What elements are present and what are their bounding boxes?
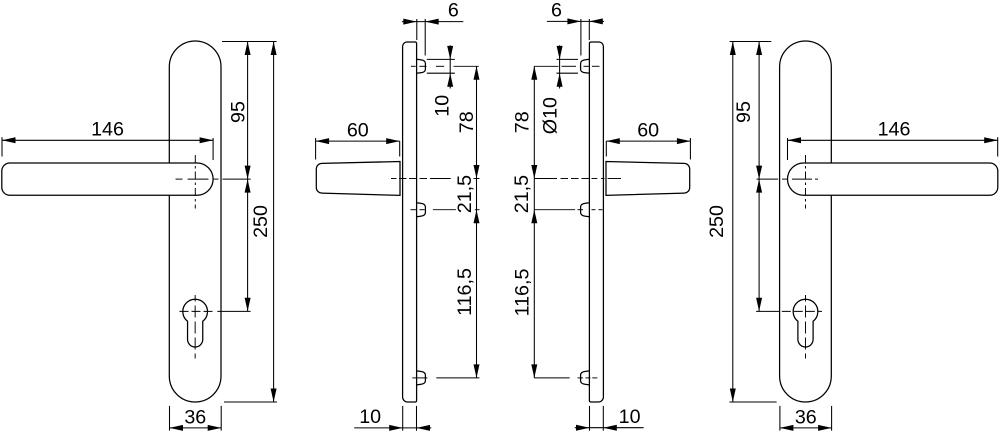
svg-text:95: 95 xyxy=(228,101,250,123)
svg-text:116,5: 116,5 xyxy=(454,268,476,316)
svg-text:95: 95 xyxy=(733,101,755,123)
svg-text:21,5: 21,5 xyxy=(511,175,533,213)
svg-text:Ø10: Ø10 xyxy=(539,97,561,134)
svg-text:21,5: 21,5 xyxy=(454,175,476,213)
svg-text:78: 78 xyxy=(456,111,478,133)
svg-text:116,5: 116,5 xyxy=(512,269,534,317)
svg-text:60: 60 xyxy=(347,119,369,141)
svg-text:146: 146 xyxy=(91,118,124,140)
svg-text:146: 146 xyxy=(878,118,911,140)
svg-text:10: 10 xyxy=(359,406,381,428)
svg-text:250: 250 xyxy=(250,205,272,238)
svg-text:10: 10 xyxy=(432,95,454,117)
svg-text:250: 250 xyxy=(706,205,728,238)
svg-text:6: 6 xyxy=(551,0,562,22)
svg-text:60: 60 xyxy=(637,119,659,141)
svg-text:6: 6 xyxy=(448,0,459,22)
svg-text:36: 36 xyxy=(795,406,817,428)
svg-text:10: 10 xyxy=(619,406,641,428)
svg-text:36: 36 xyxy=(184,406,206,428)
svg-text:78: 78 xyxy=(512,111,534,133)
